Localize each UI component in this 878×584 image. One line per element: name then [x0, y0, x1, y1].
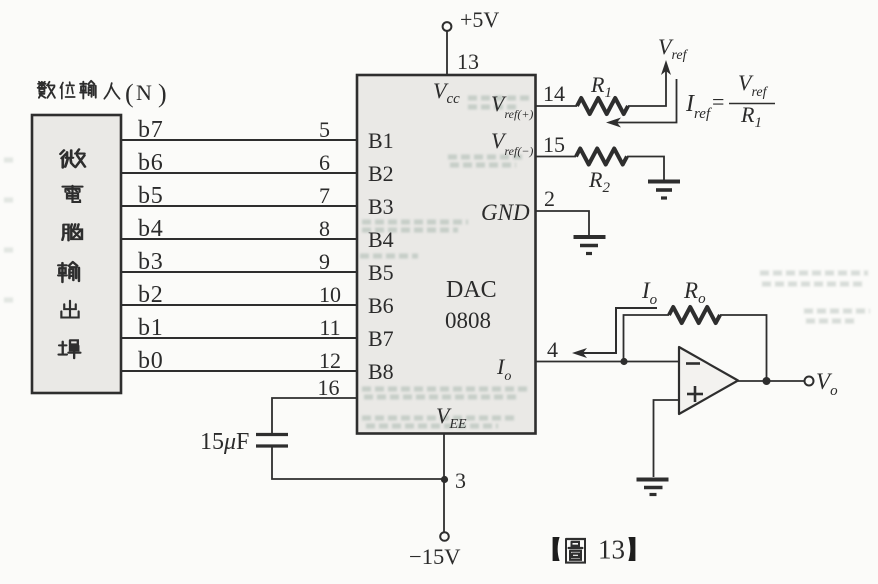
wire b7 pin5	[121, 139, 357, 141]
svg-text:B2: B2	[368, 161, 394, 186]
data bus wires b7..b0	[121, 140, 357, 371]
faint bleed-through text inside DAC area	[4, 98, 870, 426]
svg-text:b3: b3	[138, 249, 164, 275]
resistor R2	[576, 149, 627, 165]
minus sign	[686, 362, 700, 365]
svg-text:B4: B4	[368, 227, 394, 252]
svg-text:): )	[158, 79, 167, 108]
svg-text:11: 11	[319, 315, 340, 340]
Iref arrowhead left	[606, 118, 621, 128]
wire R1 to Vref arrow	[628, 68, 666, 106]
pin 13 wire	[446, 31, 448, 75]
svg-text:10: 10	[319, 282, 341, 307]
pin numbers 5..12	[319, 117, 341, 373]
svg-text:5: 5	[319, 117, 330, 142]
svg-text:DAC: DAC	[446, 277, 497, 303]
svg-text:15: 15	[543, 132, 565, 157]
svg-text:B6: B6	[368, 293, 394, 318]
svg-text:4: 4	[547, 337, 558, 362]
VEE pin wire	[443, 434, 445, 533]
labels B1..B8	[368, 128, 394, 384]
wire b1 pin11	[121, 337, 357, 339]
wire b6 pin6	[121, 172, 357, 174]
output wire	[738, 380, 805, 382]
wire b4 pin8	[121, 238, 357, 240]
DAC0808 block	[357, 75, 536, 434]
bit labels	[138, 117, 164, 374]
microcomputer output port box	[32, 115, 121, 393]
wire b5 pin7	[121, 205, 357, 207]
-15V terminal circle	[440, 532, 449, 541]
wire junction to op-amp inverting input	[624, 361, 679, 363]
svg-text:13: 13	[598, 535, 625, 565]
svg-text:0808: 0808	[445, 308, 491, 333]
Vref arrowhead up	[661, 60, 671, 75]
node junction dot 3	[441, 476, 448, 483]
wire b2 pin10	[121, 304, 357, 306]
non-inverting input wire to ground	[654, 400, 680, 477]
svg-text:14: 14	[543, 81, 565, 106]
svg-text:b2: b2	[138, 282, 164, 308]
svg-text:3: 3	[455, 468, 466, 493]
vertical label 微電腦輸出埠	[60, 149, 85, 167]
node junction dot pin4	[620, 358, 627, 365]
pin 15 wire	[536, 156, 577, 158]
capacitor C1 15uF	[256, 435, 288, 447]
svg-text:b5: b5	[138, 183, 164, 209]
svg-text:b1: b1	[138, 315, 164, 341]
plus sign	[687, 386, 703, 402]
op-amp U1	[679, 347, 738, 414]
svg-text:b7: b7	[138, 117, 164, 143]
feedback wire up from junction	[624, 315, 670, 362]
resistor R1	[577, 98, 628, 114]
svg-text:12: 12	[319, 348, 341, 373]
pin 14 wire	[536, 105, 578, 107]
svg-text:15μF: 15μF	[200, 429, 249, 455]
Vo terminal circle	[805, 377, 814, 386]
resistor Ro	[669, 307, 720, 323]
svg-text:7: 7	[319, 183, 330, 208]
svg-text:b0: b0	[138, 348, 164, 374]
ground (op-amp)	[637, 480, 669, 495]
svg-text:b6: b6	[138, 150, 164, 176]
svg-text:GND: GND	[481, 200, 530, 225]
svg-text:B5: B5	[368, 260, 394, 285]
title 數位輸入（N）	[38, 79, 167, 108]
caption 【圖 13】	[553, 537, 560, 561]
svg-text:B1: B1	[368, 128, 394, 153]
svg-text:8: 8	[319, 216, 330, 241]
+5V terminal circle	[443, 22, 452, 31]
svg-text:13: 13	[457, 49, 479, 74]
Io current indicator	[580, 308, 657, 353]
Iref direction bracket	[614, 79, 677, 123]
ground (GND pin)	[574, 237, 606, 254]
svg-text:9: 9	[319, 249, 330, 274]
svg-text:=: =	[712, 89, 724, 114]
svg-text:B3: B3	[368, 194, 394, 219]
svg-text:b4: b4	[138, 216, 164, 242]
node junction dot output	[763, 377, 771, 385]
wire R2 to ground	[627, 157, 664, 181]
svg-text:2: 2	[544, 186, 555, 211]
ground (R2)	[648, 182, 680, 199]
wire b3 pin9	[121, 271, 357, 273]
svg-text:B8: B8	[368, 359, 394, 384]
svg-text:6: 6	[319, 150, 330, 175]
pin 4 wire	[536, 361, 625, 363]
wire b0 pin12	[121, 370, 357, 372]
svg-text:(: (	[125, 79, 134, 108]
wire capacitor to node 3	[272, 446, 444, 479]
svg-text:B7: B7	[368, 326, 394, 351]
Io arrowhead left	[572, 348, 587, 358]
svg-text:+5V: +5V	[460, 7, 499, 32]
svg-text:−15V: −15V	[409, 544, 460, 569]
svg-text:N: N	[136, 80, 152, 105]
pin 16 wire	[272, 398, 357, 435]
pin 2 wire	[536, 211, 590, 235]
feedback wire Ro to output	[720, 315, 767, 381]
svg-text:16: 16	[318, 375, 340, 400]
